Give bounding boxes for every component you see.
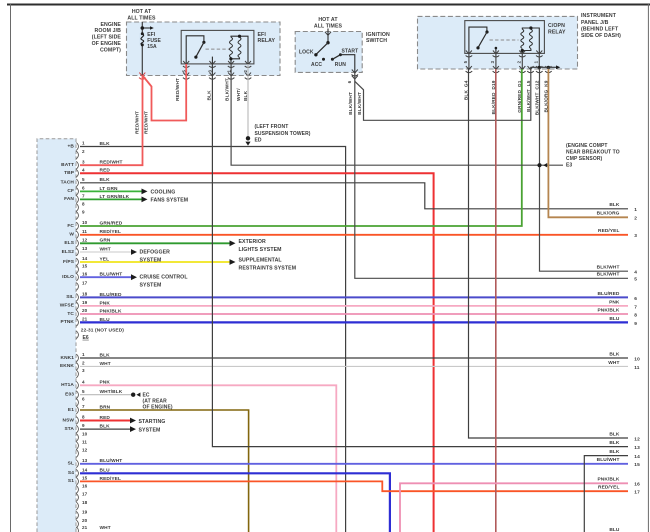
svg-text:IGNITION: IGNITION: [366, 32, 390, 38]
wire FC GRN/RED to C/OPN pin 2: [80, 69, 522, 226]
svg-text:IDLO: IDLO: [62, 274, 74, 280]
svg-text:FC: FC: [67, 223, 74, 229]
svg-text:S4: S4: [68, 470, 74, 476]
svg-text:(LEFT SIDE: (LEFT SIDE: [92, 35, 122, 41]
node ECM pin 20: [76, 518, 87, 528]
svg-text:BLK/ORG: BLK/ORG: [597, 211, 620, 217]
svg-text:RED/WHT: RED/WHT: [143, 111, 149, 134]
svg-text:E1: E1: [68, 407, 74, 413]
svg-text:W: W: [69, 232, 74, 238]
node ECM pin 1 +B: [68, 141, 85, 151]
svg-text:S1: S1: [68, 478, 74, 484]
node terminal 4 BLK/WHT: [597, 265, 638, 276]
wire SL BLU/WHT to terminal 15: [80, 463, 628, 465]
svg-text:ALL TIMES: ALL TIMES: [127, 16, 156, 22]
svg-text:BLK/WHT: BLK/WHT: [357, 92, 363, 115]
ignition switch internals: [299, 29, 358, 73]
wire RED/WHT branch to EFI relay pin 5: [143, 64, 187, 121]
wire C/OPN pin 5 BLK G4 to terminal 12: [469, 69, 629, 438]
wire +B BLK: [80, 147, 346, 532]
wire C/OPN BLK/ORG K9 to terminal 2: [548, 69, 628, 217]
node terminal 9 BLU: [609, 316, 637, 327]
arrow to CRUISE CONTROL SYSTEM: [131, 274, 137, 280]
arrow to COOLING FANS SYSTEM (pin 7): [142, 197, 148, 203]
svg-text:1: 1: [82, 141, 85, 146]
svg-text:TBP: TBP: [64, 170, 75, 176]
node ECM pin 6 CF: [67, 186, 85, 196]
svg-text:BATT: BATT: [61, 162, 74, 168]
svg-text:LIGHTS SYSTEM: LIGHTS SYSTEM: [239, 247, 282, 253]
svg-text:4: 4: [82, 379, 85, 384]
svg-text:CRUISE CONTROL: CRUISE CONTROL: [140, 275, 189, 281]
EFI relay pin exit symbols: [183, 61, 251, 68]
node ECM pin 16 IDLO: [62, 271, 88, 281]
node ECM pin 7 E1: [68, 404, 85, 414]
svg-text:13: 13: [634, 445, 640, 451]
svg-text:SYSTEM: SYSTEM: [140, 257, 162, 263]
svg-text:TC: TC: [67, 311, 74, 317]
wire EFI relay pin 3 BLK to terminal 13: [212, 64, 628, 447]
svg-text:NEAR BREAKOUT TO: NEAR BREAKOUT TO: [566, 149, 620, 155]
wire EFI relay pin 1 BLK/WHT to E3 bar: [231, 64, 563, 165]
wire W RED/YEL to terminal 3: [80, 234, 628, 236]
svg-text:PANEL J/B: PANEL J/B: [581, 20, 609, 26]
svg-text:LOCK: LOCK: [299, 49, 314, 55]
svg-text:3: 3: [82, 159, 85, 164]
svg-text:20: 20: [82, 308, 88, 313]
node ECM pin 12: [76, 448, 87, 458]
svg-text:4: 4: [82, 167, 85, 172]
ignition feed entry symbol: [325, 32, 331, 35]
svg-text:START: START: [342, 49, 359, 55]
svg-text:9: 9: [82, 423, 85, 428]
svg-text:BLK/WHT: BLK/WHT: [597, 272, 620, 278]
svg-text:6: 6: [634, 296, 637, 302]
svg-text:2: 2: [634, 216, 637, 222]
node ECM pin 6: [76, 397, 85, 407]
node terminal 6 BLU/RED: [597, 291, 637, 302]
svg-text:6: 6: [82, 397, 85, 402]
svg-text:16: 16: [634, 482, 640, 488]
wire S1 RED/YEL to terminal 17: [80, 481, 628, 491]
wire C/OPN pin 3 BLK/RED D19: [495, 69, 497, 532]
svg-text:18: 18: [82, 500, 88, 505]
node ECM pin 8: [76, 202, 85, 212]
svg-text:RED/YEL: RED/YEL: [598, 228, 620, 234]
svg-text:3: 3: [634, 233, 637, 239]
node ECM pin 21 PTNK: [61, 317, 88, 327]
arrow to SUPPLEMENTAL RESTRAINTS SYSTEM: [230, 259, 236, 265]
svg-text:1: 1: [634, 207, 637, 213]
node ECM pin 19 WFSE: [60, 300, 88, 310]
svg-text:BLK/WHT: BLK/WHT: [348, 92, 354, 115]
wire KNK1 BLK to terminal 10: [80, 357, 628, 359]
node ECM pin 4 TBP: [64, 167, 85, 177]
node ECM pin 3 BATT: [61, 159, 85, 169]
EFI relay pin numbers 5 3 1 2: [181, 70, 248, 73]
svg-text:WFSE: WFSE: [60, 303, 75, 309]
svg-text:2: 2: [82, 149, 85, 154]
junction block: ENGINE ROOM J/B: [127, 22, 281, 76]
wire BLK riser to terminal 14: [584, 456, 628, 532]
svg-text:7: 7: [82, 194, 85, 199]
svg-text:11: 11: [634, 365, 640, 371]
svg-text:14: 14: [82, 467, 88, 472]
node ECM pin 14 F/PS: [63, 256, 88, 266]
svg-text:3: 3: [82, 368, 85, 373]
wire C/OPN BLK/WHT C12 to terminal 4: [540, 69, 629, 271]
svg-text:11: 11: [82, 440, 87, 445]
svg-text:COOLING: COOLING: [151, 190, 176, 196]
svg-text:13: 13: [82, 246, 88, 251]
node ECM pin 11: [76, 440, 87, 450]
svg-text:DEFOGGER: DEFOGGER: [140, 249, 171, 255]
svg-text:1: 1: [82, 352, 85, 357]
svg-text:16: 16: [82, 271, 88, 276]
node ECM pin 13 ELS2: [62, 246, 88, 256]
svg-text:FAN: FAN: [64, 196, 74, 202]
svg-text:8: 8: [82, 202, 85, 207]
svg-text:14: 14: [82, 256, 88, 261]
label (LEFT FRONT SUSPENSION TOWER) ED: [255, 124, 311, 143]
svg-text:WHT: WHT: [100, 525, 111, 531]
node terminal 7 PNK: [609, 299, 637, 310]
node ECM pin 10: [76, 432, 87, 442]
svg-text:19: 19: [82, 509, 88, 514]
svg-text:15: 15: [82, 476, 88, 481]
svg-text:WHT: WHT: [608, 360, 619, 366]
svg-text:7: 7: [82, 404, 85, 409]
node ECM pin 1 KNK1: [61, 352, 85, 362]
svg-text:EFI: EFI: [258, 32, 267, 38]
svg-text:E6: E6: [83, 335, 89, 341]
label INSTRUMENT PANEL J/B: [581, 13, 621, 39]
frame left border: [10, 4, 12, 532]
svg-text:8: 8: [634, 312, 637, 318]
svg-text:13: 13: [82, 458, 88, 463]
EFI relay actuation dashed link: [206, 48, 230, 50]
node ECM pin 8 NSW: [63, 415, 86, 425]
svg-text:21: 21: [82, 317, 88, 322]
node terminal 2 BLK/ORG: [597, 211, 638, 222]
svg-text:SYSTEM: SYSTEM: [139, 428, 161, 434]
wire ignition BLK/WHT branch to L5: [355, 69, 531, 120]
svg-text:RUN: RUN: [335, 62, 346, 68]
node ECM pin 4 HT1A: [61, 379, 85, 389]
svg-text:CF: CF: [67, 188, 74, 194]
label (ENGINE COMPT NEAR BREAKOUT TO CMP SENSOR) E3: [566, 143, 620, 169]
svg-text:PTNK: PTNK: [61, 319, 75, 325]
node ECM pin 15: [76, 264, 87, 274]
wire STA BLK: [80, 428, 130, 430]
label EC (AT REAR OF ENGINE): [143, 392, 173, 410]
svg-text:18: 18: [82, 292, 88, 297]
node ECM pin 10 FC: [67, 220, 87, 230]
svg-text:(BEHIND LEFT: (BEHIND LEFT: [581, 26, 619, 32]
svg-text:SL: SL: [68, 461, 74, 467]
node pin1 distribution bar with dots and continuation arrow: [531, 65, 561, 69]
svg-text:TACH: TACH: [61, 180, 75, 186]
wire E03 WHT/BLK to ground EC: [80, 394, 131, 396]
svg-text:SIDE OF DASH): SIDE OF DASH): [581, 33, 621, 39]
svg-text:BLU: BLU: [609, 527, 620, 532]
node terminal 8 PNK/BLK: [597, 307, 637, 318]
svg-text:KNK1: KNK1: [61, 355, 75, 361]
node ECM pin 9: [76, 210, 85, 220]
wire CF LT GRN: [80, 190, 142, 192]
wire TACH BLK to terminal 1: [80, 183, 628, 209]
arrow to STARTING SYSTEM (pin 8): [130, 418, 136, 424]
svg-text:21: 21: [82, 525, 88, 530]
svg-text:SWITCH: SWITCH: [366, 38, 387, 44]
node terminal 12 BLK: [609, 431, 640, 442]
svg-text:RESTRAINTS SYSTEM: RESTRAINTS SYSTEM: [239, 266, 297, 272]
svg-text:11: 11: [82, 229, 87, 234]
svg-text:HOT AT: HOT AT: [132, 9, 152, 15]
ENGINE ROOM J/B bottom edge exit symbols: [139, 73, 251, 80]
svg-text:F/PS: F/PS: [63, 259, 75, 265]
node terminal 1 BLK: [609, 202, 637, 213]
wire F/PS YEL: [80, 261, 230, 263]
svg-text:NSW: NSW: [63, 417, 75, 423]
svg-text:BLK: BLK: [609, 449, 620, 455]
node ECM pin 5 TACH: [61, 177, 85, 187]
svg-text:PNK/BLK: PNK/BLK: [597, 477, 619, 483]
arrow to STARTING SYSTEM (pin 9): [130, 426, 136, 432]
svg-text:BLK/WHT: BLK/WHT: [597, 265, 620, 271]
wire FAN LT GRN/BLK: [80, 198, 142, 200]
svg-text:10: 10: [82, 432, 88, 437]
wire TBP RED: [80, 173, 434, 532]
label HOT AT ALL TIMES (middle): [314, 17, 343, 29]
svg-text:CMP SENSOR): CMP SENSOR): [566, 156, 603, 162]
svg-text:EXTERIOR: EXTERIOR: [239, 239, 266, 245]
svg-text:WHT/: WHT/: [236, 88, 242, 101]
frame right border: [647, 4, 649, 532]
wire SIL BLU/RED to terminal 6: [80, 296, 628, 298]
svg-text:FANS SYSTEM: FANS SYSTEM: [151, 198, 189, 204]
label C/OPN RELAY: [548, 23, 566, 35]
svg-text:17: 17: [82, 492, 88, 497]
node ECM pin 14 S4: [68, 467, 88, 477]
svg-text:SYSTEM: SYSTEM: [140, 283, 162, 289]
wire HT1A PNK: [80, 385, 336, 532]
svg-text:ELS2: ELS2: [62, 249, 75, 255]
svg-text:ROOM J/B: ROOM J/B: [95, 28, 122, 34]
node ECM pin 2: [76, 149, 85, 159]
node bus junction with continuation arrow: [141, 26, 154, 30]
connector block ECM (left, dashed): [37, 139, 76, 532]
svg-text:E03: E03: [65, 392, 74, 398]
label EXTERIOR LIGHTS SYSTEM: [239, 239, 282, 253]
node terminal 14 BLK: [609, 449, 640, 460]
node ECM pin 2 EKNK: [60, 361, 85, 371]
wire NSW RED: [80, 420, 130, 422]
node ECM pin 3: [76, 368, 85, 378]
C/OPN relay pin numbers 5 3 2 1: [463, 60, 538, 63]
wire EKNK WHT to terminal 11: [80, 365, 628, 367]
svg-text:STA: STA: [64, 426, 74, 432]
svg-text:BLK: BLK: [609, 351, 620, 357]
C/OPN relay switch contacts: [469, 27, 497, 53]
node ECM pin 21: [76, 525, 87, 532]
node ECM pin 17: [76, 281, 87, 291]
node ECM pin 13 SL: [68, 458, 88, 468]
node ECM pin 12 ELS: [64, 237, 87, 247]
svg-text:5: 5: [634, 277, 637, 283]
node ECM pin 19: [76, 509, 87, 519]
node ECM pin 7 FAN: [64, 194, 85, 204]
svg-text:17: 17: [82, 281, 88, 286]
node terminal 3 RED/YEL: [598, 228, 637, 239]
node ECM pin 20 TC: [67, 308, 87, 318]
svg-text:ENGINE: ENGINE: [101, 22, 122, 28]
svg-text:HOT AT: HOT AT: [318, 17, 338, 23]
arrow to EXTERIOR LIGHTS SYSTEM: [230, 240, 236, 246]
svg-text:(ENGINE COMPT: (ENGINE COMPT: [566, 143, 608, 149]
node terminal 5 BLK/WHT: [597, 272, 638, 283]
svg-text:5: 5: [82, 389, 85, 394]
svg-text:17: 17: [634, 490, 640, 496]
node ECM pin 18 SIL: [66, 292, 87, 302]
wire ELS GRN: [80, 242, 230, 244]
wire WFSE PNK to terminal 7: [80, 305, 628, 307]
svg-text:ACC: ACC: [311, 62, 322, 68]
label DEFOGGER SYSTEM: [140, 249, 171, 263]
svg-text:8: 8: [82, 415, 85, 420]
label ENGINE ROOM J/B: [92, 22, 122, 54]
svg-text:PNK: PNK: [609, 299, 620, 305]
svg-text:10: 10: [82, 220, 88, 225]
fuse EFI FUSE 15A: [139, 32, 161, 50]
label IGNITION SWITCH: [366, 32, 390, 44]
wire IDLO BLU/WHT: [80, 276, 131, 278]
C/OPN pin drops to J/B edge: [469, 53, 539, 69]
svg-text:10: 10: [634, 356, 640, 362]
svg-text:6: 6: [347, 80, 352, 83]
label HOT AT ALL TIMES (left): [127, 9, 156, 21]
svg-text:+B: +B: [68, 143, 75, 149]
svg-text:2: 2: [82, 361, 85, 366]
node ECM pin 15 S1: [68, 476, 88, 486]
wire PNK/BLK riser to terminal 16: [400, 483, 628, 532]
label SUPPLEMENTAL RESTRAINTS SYSTEM: [239, 258, 297, 272]
svg-text:E3: E3: [566, 163, 572, 169]
svg-text:9: 9: [634, 321, 637, 327]
relay EFI RELAY box: [181, 30, 254, 64]
node pins 22-31 not used: [76, 328, 124, 339]
svg-text:EC: EC: [143, 392, 150, 398]
svg-text:(LEFT FRONT: (LEFT FRONT: [255, 124, 289, 130]
node ECM pin 18: [76, 500, 87, 510]
label STARTING SYSTEM: [139, 419, 166, 434]
svg-text:4: 4: [634, 270, 637, 276]
wire PTNK BLU to terminal 9: [80, 321, 628, 323]
node terminal 11 WHT: [608, 360, 640, 371]
C/OPN relay coil: [521, 26, 540, 53]
C/OPN relay actuation dashed link: [490, 39, 519, 41]
svg-text:BLU/WHT: BLU/WHT: [597, 457, 620, 463]
wire fuse feed BLK: [141, 22, 143, 76]
svg-text:RED/WHT: RED/WHT: [135, 111, 141, 134]
svg-text:RELAY: RELAY: [258, 38, 276, 44]
arrow to DEFOGGER SYSTEM: [131, 249, 137, 255]
svg-text:BLK: BLK: [609, 440, 620, 446]
wire ELS2 WHT: [80, 251, 131, 253]
node terminal 17 RED/YEL: [598, 485, 640, 496]
INSTRUMENT PANEL J/B bottom edge exit symbols: [466, 66, 552, 73]
svg-text:15: 15: [634, 462, 640, 468]
C/OPN relay pin exit symbols: [466, 51, 543, 58]
svg-text:BLU: BLU: [609, 316, 620, 322]
node ECM pin 9 STA: [64, 423, 85, 433]
svg-text:INSTRUMENT: INSTRUMENT: [581, 13, 617, 19]
svg-text:7: 7: [634, 304, 637, 310]
svg-text:RED/WHT: RED/WHT: [175, 78, 181, 101]
svg-text:COMPT): COMPT): [100, 47, 121, 53]
svg-text:20: 20: [82, 518, 88, 523]
wire E1 BRN: [80, 410, 249, 532]
relay C/OPN RELAY box: [465, 21, 545, 54]
node ECM pin 16: [76, 484, 87, 494]
svg-text:SUPPLEMENTAL: SUPPLEMENTAL: [239, 258, 283, 264]
EFI relay coil: [229, 35, 248, 64]
node ECM pin 5 E03: [65, 389, 85, 399]
wire TC PNK/BLK to terminal 8: [80, 313, 628, 315]
svg-text:15A: 15A: [147, 44, 157, 50]
svg-text:RED/YEL: RED/YEL: [598, 485, 620, 491]
svg-text:5: 5: [82, 177, 85, 182]
svg-text:12: 12: [634, 436, 640, 442]
svg-text:PNK/BLK: PNK/BLK: [597, 307, 619, 313]
label CRUISE CONTROL SYSTEM: [140, 275, 189, 289]
svg-text:ELS: ELS: [64, 240, 74, 246]
node terminal 10 BLK: [609, 351, 640, 362]
wire BATT RED/WHT: [80, 76, 143, 166]
ignition pin 6 exit symbol: [352, 70, 358, 73]
junction block INSTRUMENT PANEL J/B: [418, 16, 578, 69]
arrow to COOLING FANS SYSTEM (pin 6): [142, 189, 148, 195]
svg-text:STARTING: STARTING: [139, 419, 166, 425]
svg-text:19: 19: [82, 300, 88, 305]
switch IGNITION SWITCH box: [295, 32, 362, 73]
ground ED (left front suspension tower): [245, 136, 250, 146]
svg-text:BLK/WHT: BLK/WHT: [225, 78, 231, 101]
wire S4 BLU: [80, 473, 390, 532]
svg-text:C/OPN: C/OPN: [548, 23, 565, 29]
svg-text:15: 15: [82, 264, 88, 269]
svg-text:SUSPENSION TOWER): SUSPENSION TOWER): [255, 131, 311, 137]
node ECM pin 11 W: [69, 229, 87, 239]
label COOLING FANS SYSTEM: [151, 190, 189, 204]
ignition harness connector symbol: [352, 76, 358, 79]
svg-text:12: 12: [82, 237, 88, 242]
svg-text:ED: ED: [255, 138, 262, 144]
node ECM pin 17: [76, 492, 87, 502]
diagram frame top border: [7, 4, 650, 6]
node terminal 15 BLU/WHT: [597, 457, 640, 468]
wire label WHT/ BLK (relay pin 2, two columns): [236, 88, 249, 101]
svg-text:22-31 (NOT USED): 22-31 (NOT USED): [81, 328, 124, 334]
wire EFI relay pin 2 WHT/BLK to ground ED: [247, 64, 249, 137]
svg-text:EKNK: EKNK: [60, 363, 74, 369]
svg-text:OF ENGINE: OF ENGINE: [92, 41, 122, 47]
node terminal 16 PNK/BLK: [597, 477, 640, 488]
svg-text:BLU/RED: BLU/RED: [597, 291, 619, 297]
svg-text:9: 9: [82, 210, 85, 215]
ground EC (at rear of engine): [131, 393, 140, 397]
svg-text:14: 14: [634, 454, 640, 460]
